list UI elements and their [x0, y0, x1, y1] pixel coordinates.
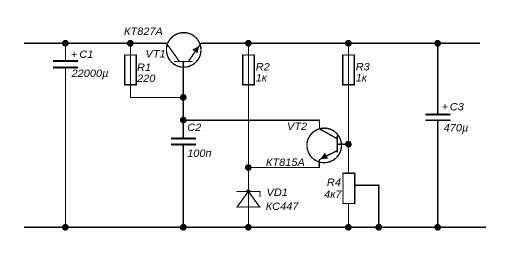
node VD1 cathode junction	[246, 189, 250, 193]
transistor VT2 circle	[307, 128, 342, 163]
node C1 top rail	[62, 40, 69, 47]
transistor VT1 emitter diagonal	[188, 43, 201, 61]
resistor R2 body	[243, 55, 255, 85]
capacitor C3 plates	[425, 114, 450, 120]
wire top rail left segment	[24, 42, 166, 44]
capacitor C3 bottom lead	[437, 120, 439, 227]
svg-text:+: +	[71, 49, 78, 61]
transistor VT1 emitter arrow	[192, 46, 199, 54]
svg-text:R1: R1	[137, 62, 151, 74]
svg-text:VD1: VD1	[267, 187, 288, 199]
node R1 to VT1 base	[180, 94, 187, 101]
node R2 top rail	[245, 40, 252, 47]
transistor VT2 collector diagonal	[319, 129, 337, 139]
transistor VT1 collector diagonal	[166, 43, 179, 61]
capacitor C1 plates	[53, 61, 78, 67]
node C1 bottom rail	[62, 224, 69, 231]
transistor VT1 circle	[166, 33, 201, 68]
transistor VT2 emitter diagonal	[319, 151, 337, 160]
node VT2 base R3 R4	[345, 141, 352, 148]
node R4 bottom rail	[345, 224, 352, 231]
node C3 bottom rail	[434, 224, 441, 231]
capacitor C3 top lead	[437, 43, 439, 114]
svg-text:R2: R2	[256, 61, 270, 73]
node VT2 collector wire	[180, 117, 187, 124]
resistor R1 body	[125, 55, 137, 85]
svg-text:КТ815А: КТ815А	[266, 157, 305, 169]
capacitor C1 bottom lead	[64, 67, 66, 227]
resistor R1 lead wire through body	[130, 43, 183, 97]
capacitor C1 top lead	[64, 43, 66, 61]
node R3 top rail	[345, 40, 352, 47]
svg-text:220: 220	[136, 73, 156, 85]
capacitor C2 plates	[171, 138, 196, 144]
svg-text:R4: R4	[327, 177, 341, 189]
svg-text:1к: 1к	[256, 73, 268, 85]
zener diode VD1 anode triangle	[237, 191, 260, 207]
svg-text:VT2: VT2	[287, 121, 307, 133]
svg-text:VT1: VT1	[146, 49, 166, 61]
node C2 bottom rail	[180, 224, 187, 231]
svg-text:+: +	[442, 101, 449, 113]
node R1 top rail	[127, 40, 134, 47]
wire VT2 collector to VT1 base node	[183, 120, 319, 129]
resistor R3 lead wire through body down to R4	[347, 43, 349, 173]
transistor VT2 emitter arrow	[320, 153, 328, 160]
transistor VT1 base bar	[174, 60, 192, 62]
wire VT2 emitter to VD1 node	[248, 160, 319, 168]
transistor VT2 base lead wire	[337, 143, 348, 145]
zener diode VD1 cathode bar	[236, 191, 260, 197]
svg-text:1к: 1к	[356, 73, 368, 85]
node VD1 bottom rail	[245, 224, 252, 231]
svg-text:470µ: 470µ	[444, 123, 469, 135]
svg-text:R3: R3	[356, 61, 371, 73]
svg-text:22000µ: 22000µ	[71, 68, 109, 80]
capacitor C2 bottom lead	[182, 144, 184, 227]
transistor VT2 base bar	[336, 135, 338, 152]
svg-text:100п: 100п	[187, 148, 211, 160]
svg-text:КС447: КС447	[266, 201, 300, 213]
svg-text:C3: C3	[450, 101, 465, 113]
resistor R4 body	[343, 173, 355, 203]
node C3 top rail	[434, 40, 441, 47]
svg-text:4к7: 4к7	[324, 189, 342, 201]
node VT2 emitter VD1	[245, 164, 252, 171]
svg-text:C1: C1	[79, 49, 93, 61]
resistor R4 tap wire	[355, 185, 379, 227]
resistor R4 bottom lead	[347, 204, 349, 228]
resistor R3 body	[343, 55, 355, 85]
transistor VT1 base lead	[182, 61, 184, 138]
wire bottom rail	[24, 226, 486, 228]
node R4 tap bottom rail	[375, 224, 382, 231]
svg-text:КТ827А: КТ827А	[124, 26, 163, 38]
svg-text:C2: C2	[187, 122, 201, 134]
resistor R2 lead wire through body and VD1	[247, 43, 249, 227]
wire top rail right segment	[201, 42, 480, 44]
